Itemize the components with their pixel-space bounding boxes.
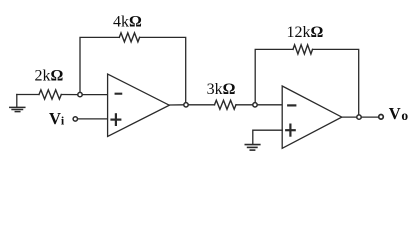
resistor 4k (U1 feedback) — [119, 33, 139, 42]
U2 minus pin mark — [288, 104, 295, 106]
node D (U2 output junction) — [357, 115, 361, 119]
wire node B to R 3k — [188, 104, 214, 106]
wire feedback 1 left riser — [80, 37, 119, 92]
wire feedback 2 right drop — [313, 49, 359, 114]
wire feedback 1 right drop — [140, 37, 186, 102]
resistor 3k (coupling) — [215, 100, 237, 109]
wire node D to terminal Vo — [361, 116, 378, 118]
svg-text:4kΩ: 4kΩ — [113, 14, 142, 31]
wire R 2k to node A — [61, 94, 77, 96]
svg-text:12kΩ: 12kΩ — [287, 24, 324, 41]
terminal Vo (output) — [379, 115, 384, 120]
resistor 12k (U2 feedback) — [293, 45, 313, 54]
node A (op-amp U1 inverting input junction) — [78, 92, 82, 96]
node B (U1 output junction) — [184, 103, 188, 107]
terminal Vi (input source) — [73, 117, 77, 121]
U1 minus pin mark — [116, 93, 122, 95]
svg-text:2kΩ: 2kΩ — [35, 68, 64, 85]
U2 plus pin mark — [286, 125, 295, 136]
op-amp U1 — [108, 74, 170, 137]
wire ground to R 2k — [17, 94, 39, 96]
svg-text:Vo: Vo — [389, 104, 409, 123]
wire feedback 2 left riser — [255, 49, 293, 102]
svg-text:3kΩ: 3kΩ — [207, 81, 236, 98]
wire node C to U2 minus input — [257, 104, 282, 106]
wire R 3k to node C — [236, 104, 253, 106]
U1 plus pin mark — [112, 114, 121, 125]
wire Vi to U1 plus input — [78, 118, 108, 120]
ground (input, left) — [10, 95, 25, 112]
op-amp U2 — [282, 86, 342, 148]
resistor 2k (input) — [39, 90, 61, 99]
node C (op-amp U2 inverting input junction) — [253, 103, 257, 107]
ground (U2 non-inverting input) — [245, 145, 259, 151]
wire U2 plus input to ground — [253, 130, 282, 144]
wire U1 output to node B — [169, 104, 183, 106]
wire node A to U1 minus input — [82, 94, 107, 96]
wire U2 output to node D — [342, 116, 357, 118]
